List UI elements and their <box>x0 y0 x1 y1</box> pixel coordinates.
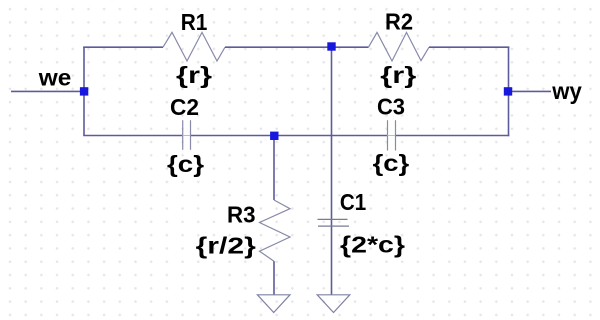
wire C1 branch <box>331 47 333 296</box>
designator R3 <box>227 202 256 228</box>
wire R3 branch bottom <box>273 261 275 295</box>
wire top rail left <box>83 46 163 48</box>
wire bottom rail right <box>396 135 510 137</box>
capacitor C2 <box>183 120 191 150</box>
svg-text:{r}: {r} <box>380 62 416 88</box>
designator C2 <box>170 94 199 120</box>
wire top rail middle <box>225 46 369 48</box>
junction node between C2 and R3 <box>270 132 278 140</box>
svg-text:{c}: {c} <box>373 150 410 176</box>
junction node we <box>80 87 88 95</box>
capacitor C1 <box>318 219 350 226</box>
wire bottom rail middle <box>191 135 388 137</box>
designator R2 <box>385 9 413 35</box>
svg-text:we: we <box>38 65 72 91</box>
svg-text:{c}: {c} <box>167 151 204 177</box>
svg-text:wy: wy <box>551 78 582 104</box>
wire R3 branch top <box>273 136 275 200</box>
svg-text:{r/2}: {r/2} <box>196 233 256 259</box>
value label {r} of R2 <box>380 62 416 88</box>
svg-text:{r}: {r} <box>176 62 212 88</box>
value label {c} of C3 <box>373 150 410 176</box>
wire left vertical <box>83 47 85 136</box>
port label wy <box>551 78 582 104</box>
wire top rail right <box>429 46 509 48</box>
junction node wy <box>504 87 512 95</box>
wire we lead <box>11 90 84 92</box>
value label {r} of R1 <box>176 62 212 88</box>
svg-text:R2: R2 <box>385 9 413 35</box>
svg-text:C1: C1 <box>340 189 366 215</box>
wire wy lead <box>509 90 552 92</box>
value label {c} of C2 <box>167 151 204 177</box>
value label {2*c} of C1 <box>340 232 405 258</box>
ground right <box>317 295 350 313</box>
svg-text:R3: R3 <box>227 202 256 228</box>
svg-text:{2*c}: {2*c} <box>340 232 405 258</box>
capacitor C3 <box>388 120 396 150</box>
svg-text:C2: C2 <box>170 94 199 120</box>
designator R1 <box>181 9 208 35</box>
designator C3 <box>377 94 405 120</box>
wire bottom rail left <box>83 135 182 137</box>
resistor R1 <box>163 32 225 61</box>
resistor R2 <box>369 32 430 61</box>
junction node between R1 and R2 <box>327 42 335 50</box>
designator C1 <box>340 189 366 215</box>
resistor R3 <box>260 200 291 261</box>
svg-text:R1: R1 <box>181 9 208 35</box>
wire right vertical <box>508 47 510 137</box>
value label {r/2} of R3 <box>196 233 256 259</box>
port label we <box>38 65 72 91</box>
ground left <box>257 295 290 313</box>
svg-text:C3: C3 <box>377 94 405 120</box>
